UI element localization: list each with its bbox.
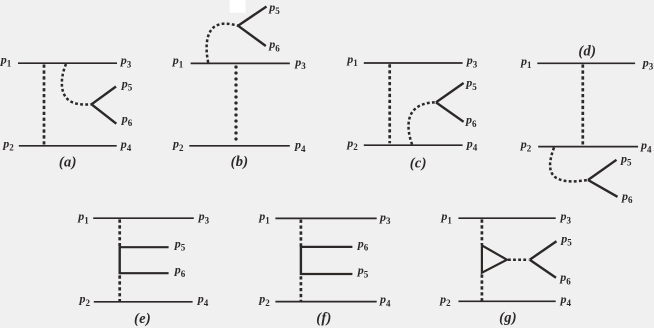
fermion line p1-p3 (g): [458, 217, 555, 219]
fermion line p2-p4 (g): [458, 300, 555, 302]
branch line to p6 (a): [92, 104, 117, 123]
white square patch (b): [230, 0, 246, 13]
svg-text:(e): (e): [134, 311, 151, 327]
fermion line p2-p4 (b): [189, 145, 289, 147]
dashed propagator upper (f): [300, 220, 303, 247]
branch line to p6 (b): [238, 26, 266, 46]
svg-text:(f): (f): [316, 311, 331, 327]
branch line to p5 (a): [92, 87, 117, 105]
dashed propagator lower (e): [118, 275, 121, 301]
branch line to p5 (g): [530, 241, 557, 259]
svg-text:(a): (a): [59, 155, 77, 171]
branch line to p5 (c): [436, 83, 464, 102]
dashed propagator horizontal (g): [508, 258, 529, 261]
dashed propagator lower (g): [481, 275, 484, 301]
dashed propagator upper (e): [118, 219, 121, 247]
dashed propagator lower (f): [300, 276, 303, 301]
stub line to p5 (f): [301, 273, 353, 275]
svg-text:(b): (b): [231, 154, 249, 170]
dashed propagator vertical (a): [43, 65, 46, 146]
dashed emission curve (b): [207, 24, 238, 63]
branch line to p6 (g): [530, 260, 556, 278]
svg-text:(g): (g): [499, 310, 517, 326]
stub line to p6 (e): [120, 272, 169, 274]
fermion line p2-p4 (e): [94, 301, 193, 303]
stub line to p6 (f): [301, 246, 353, 248]
fermion line p2-p4 (d): [538, 146, 638, 148]
stub line to p5 (e): [120, 246, 169, 248]
svg-text:(d): (d): [578, 43, 596, 59]
fermion line p1-p3 (e): [93, 217, 194, 219]
solid segment between stubs (f): [300, 246, 302, 275]
dashed emission curve (a): [62, 64, 92, 105]
branch line to p6 (d): [588, 180, 618, 197]
fermion line p1-p3 (f): [275, 217, 376, 219]
fermion line p2-p4 (c): [364, 144, 463, 146]
triangle loop (g): [482, 245, 507, 272]
dashed propagator upper (g): [481, 219, 484, 244]
dashed emission curve (c): [409, 102, 436, 144]
dashed propagator vertical (c): [388, 64, 391, 143]
fermion line p2-p4 (a): [19, 145, 117, 147]
branch line to p6 (c): [436, 102, 464, 121]
branch line to p5 (b): [238, 7, 267, 26]
svg-text:(c): (c): [410, 155, 427, 171]
fermion line p2-p4 (f): [275, 301, 376, 303]
dashed propagator vertical (d): [581, 65, 584, 145]
solid segment between stubs (e): [118, 246, 120, 274]
fermion line p1-p3 (d): [537, 62, 635, 64]
dashed emission curve (d): [550, 148, 588, 182]
fermion line p1-p3 (c): [364, 62, 463, 64]
fermion line p1-p3 (b): [191, 62, 290, 64]
branch line to p5 (d): [588, 160, 617, 180]
fermion line p1-p3 (a): [18, 62, 117, 64]
dotted propagator vertical (b): [234, 67, 237, 144]
